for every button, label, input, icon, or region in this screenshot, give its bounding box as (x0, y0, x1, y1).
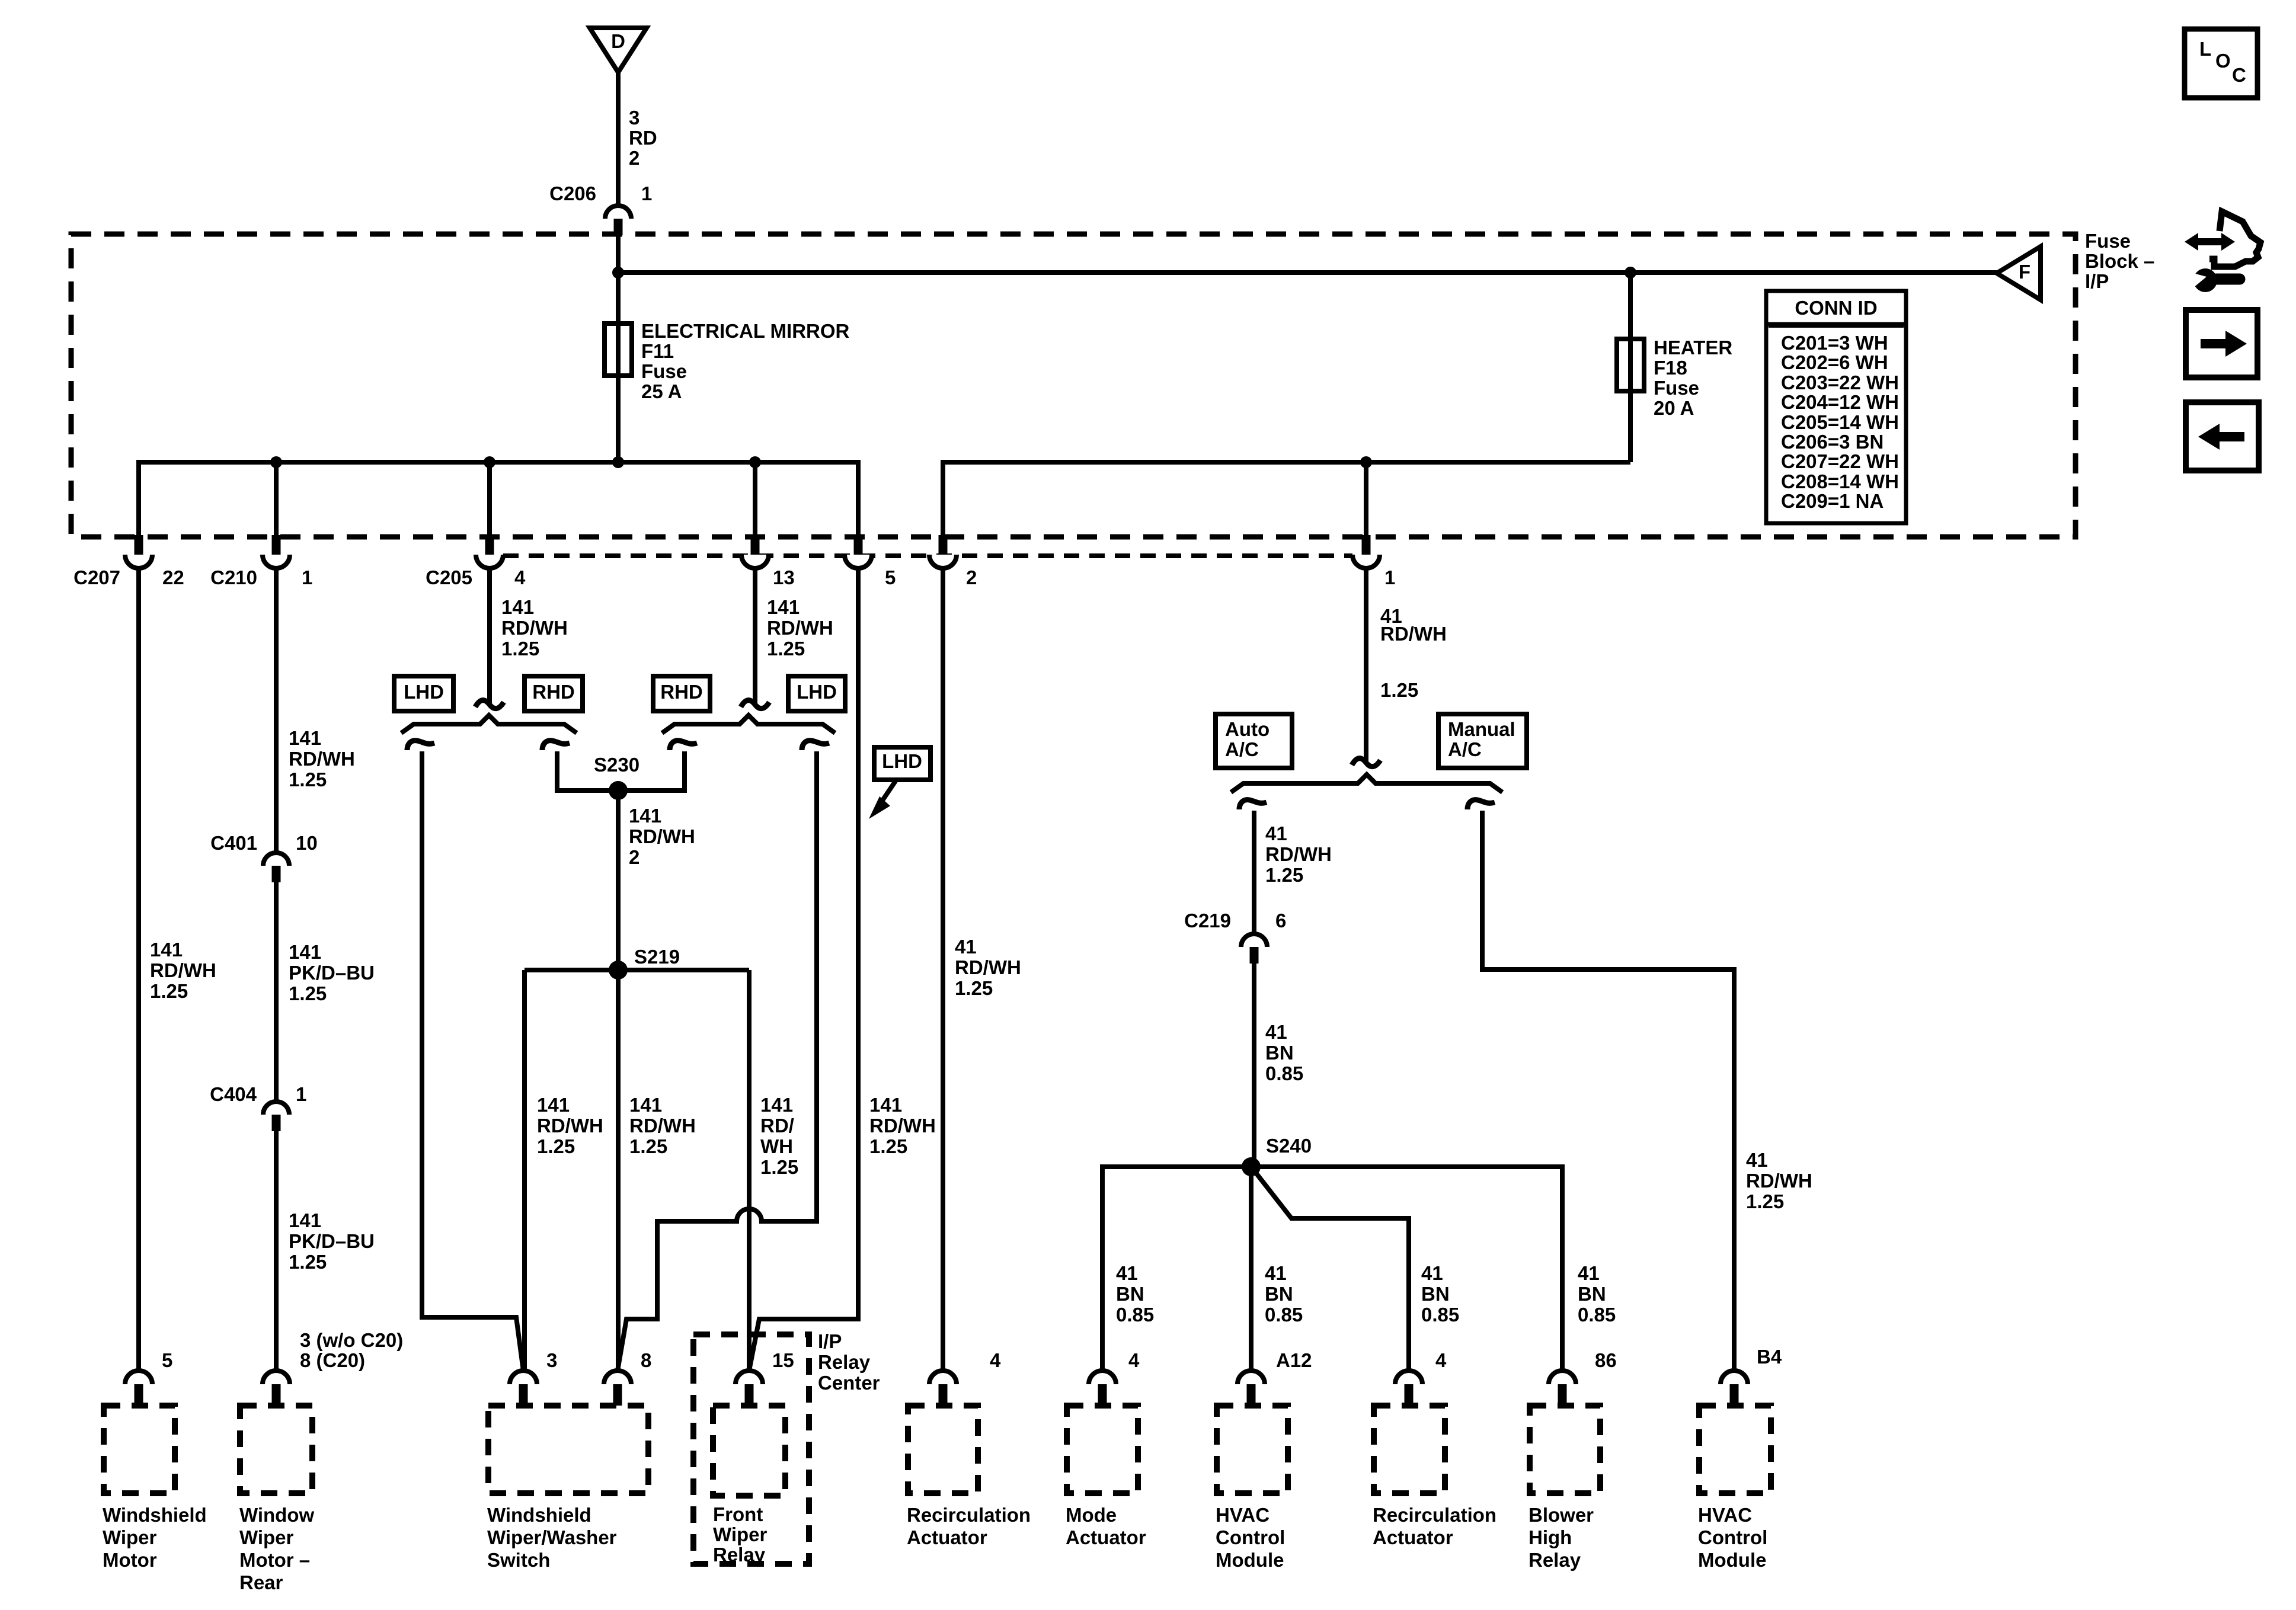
label HEATER F18 Fuse 20 A (1654, 337, 1732, 419)
svg-text:C219: C219 (1184, 910, 1231, 932)
svg-text:13: 13 (773, 566, 795, 588)
svg-text:8 (C20): 8 (C20) (300, 1349, 365, 1371)
hook Auto AC branch (1239, 800, 1267, 809)
label Front Wiper Relay (713, 1503, 768, 1566)
svg-text:4: 4 (990, 1349, 1001, 1371)
svg-text:RD/WH: RD/WH (629, 825, 695, 847)
svg-text:Manual: Manual (1448, 718, 1515, 740)
svg-text:141: 141 (767, 596, 800, 618)
hook LHD branch (407, 741, 434, 750)
wire S240 to HVAC control module A12 (1249, 1167, 1253, 1371)
splice S219 (609, 961, 628, 980)
wire label 141 RD/WH 1.25 (C207) (150, 939, 216, 1002)
svg-text:HEATER: HEATER (1654, 337, 1732, 359)
fuse F18 (1617, 339, 1644, 391)
connector front wiper relay pin15 (736, 1371, 763, 1384)
svg-text:2: 2 (629, 147, 639, 169)
svg-text:1.25: 1.25 (501, 638, 539, 660)
bus wire from F11 (left segment) (139, 462, 858, 537)
wire S219 centre to pin8 (616, 970, 621, 1371)
svg-text:25 A: 25 A (641, 380, 682, 402)
svg-text:Relay: Relay (1528, 1549, 1581, 1571)
svg-text:PK/D–BU: PK/D–BU (289, 962, 375, 984)
svg-text:1.25: 1.25 (869, 1135, 907, 1157)
svg-text:RD/WH: RD/WH (1265, 843, 1332, 865)
svg-text:C210: C210 (210, 566, 257, 588)
svg-text:141: 141 (501, 596, 534, 618)
wire C219 to S240 (1252, 964, 1256, 1167)
svg-text:BN: BN (1265, 1283, 1293, 1305)
svg-text:RD/WH: RD/WH (869, 1115, 936, 1137)
svg-text:S219: S219 (634, 946, 680, 968)
svg-text:0.85: 0.85 (1421, 1304, 1459, 1326)
wire label 141 RD/WH 1.25 (pin8 wire) (629, 1094, 696, 1157)
svg-text:Actuator: Actuator (1066, 1526, 1146, 1548)
HVAC control module 2 box (1699, 1406, 1771, 1493)
svg-text:Recirculation: Recirculation (1373, 1504, 1496, 1526)
svg-text:1: 1 (641, 183, 652, 204)
option tag LHD with arrow (869, 747, 930, 819)
wire C205 pin13 down to split (753, 567, 757, 703)
wire label 141 RD/WH 2 (629, 805, 695, 868)
svg-text:Fuse: Fuse (641, 360, 687, 382)
svg-text:Auto: Auto (1225, 718, 1269, 740)
svg-text:Wiper/Washer: Wiper/Washer (487, 1526, 617, 1548)
connector C205 pin1 (1352, 555, 1380, 568)
svg-text:1.25: 1.25 (760, 1156, 798, 1178)
svg-text:141: 141 (629, 805, 661, 827)
svg-text:Front: Front (713, 1503, 763, 1525)
node C205 pin4 drop (487, 462, 492, 537)
connector C404 label (210, 1083, 306, 1105)
svg-text:1.25: 1.25 (767, 638, 805, 660)
recirculation actuator 2 box (1374, 1406, 1445, 1493)
wire label 41 BN 0.85 (blower) (1578, 1262, 1616, 1326)
svg-text:RD/WH: RD/WH (150, 959, 216, 981)
wire label 141 PK/D-BU 1.25 (lower) (289, 1209, 375, 1273)
svg-text:D: D (611, 30, 625, 52)
svg-text:6: 6 (1275, 910, 1286, 932)
wire auto AC branch to C219 (1252, 811, 1256, 934)
wire S240 to blower high relay (1251, 1167, 1562, 1371)
svg-text:141: 141 (289, 1209, 321, 1231)
label Recirculation Actuator 1 (907, 1504, 1031, 1548)
svg-text:41: 41 (1265, 1262, 1287, 1284)
wire label 41 RD/WH 1.25 (pin2) (955, 936, 1021, 999)
splice S240 (1242, 1157, 1261, 1176)
connector mode actuator (1089, 1371, 1116, 1384)
svg-text:0.85: 0.85 (1265, 1062, 1303, 1084)
pin label 3 (w/o C20) 8 (C20) (300, 1329, 403, 1371)
svg-text:1.25: 1.25 (1746, 1190, 1784, 1212)
option split brace (pin4) (401, 715, 577, 733)
svg-text:Window: Window (239, 1504, 314, 1526)
svg-text:3 (w/o C20): 3 (w/o C20) (300, 1329, 403, 1351)
svg-text:F18: F18 (1654, 357, 1687, 379)
wire manual AC branch to HVAC B4 (1482, 811, 1734, 1371)
connector C210 pin1 (263, 555, 290, 568)
svg-text:LHD: LHD (797, 681, 837, 703)
front wiper relay box (713, 1406, 785, 1496)
wire label 41 BN 0.85 (A12) (1265, 1262, 1303, 1326)
svg-text:S240: S240 (1266, 1135, 1312, 1157)
wire S219 horizontal (525, 968, 749, 972)
hook RHD branch to S230 (670, 741, 697, 750)
svg-text:1.25: 1.25 (955, 977, 993, 999)
svg-text:15: 15 (772, 1349, 794, 1371)
label Windshield Wiper Motor (103, 1504, 207, 1571)
connector blower high relay (1549, 1371, 1576, 1384)
wire label 141 RD/WH 1.25 (pin5) (869, 1094, 936, 1157)
connector C206 label (549, 183, 652, 204)
wire S240 to mode actuator (1102, 1167, 1251, 1371)
node pin1 AC drop (1364, 462, 1368, 537)
svg-text:1.25: 1.25 (1265, 864, 1303, 886)
svg-text:Windshield: Windshield (103, 1504, 207, 1526)
svg-text:141: 141 (760, 1094, 793, 1116)
connector C404 (263, 1102, 289, 1115)
LOC locator box (2185, 29, 2257, 98)
svg-text:Actuator: Actuator (1373, 1526, 1453, 1548)
connector wiper/washer switch pin3 (510, 1371, 537, 1384)
connector HVAC control module 1 (1237, 1371, 1265, 1384)
svg-text:CONN ID: CONN ID (1795, 297, 1877, 319)
bus wire from F18 (right segment) (943, 462, 1630, 537)
wire C206 to F triangle (618, 235, 1997, 273)
svg-text:C207: C207 (73, 566, 120, 588)
HVAC control module 1 box (1217, 1406, 1288, 1493)
svg-text:141: 141 (150, 939, 183, 961)
windshield wiper motor box (104, 1406, 175, 1493)
svg-text:141: 141 (289, 727, 321, 749)
blower high relay box (1530, 1406, 1600, 1493)
connector C219 (1241, 934, 1267, 947)
svg-text:41: 41 (1265, 1021, 1287, 1043)
svg-text:1.25: 1.25 (289, 982, 327, 1004)
svg-text:Center: Center (818, 1372, 880, 1394)
svg-text:Module: Module (1698, 1549, 1766, 1571)
I/P relay center outer dashed box (693, 1334, 809, 1564)
node junction at F18 feed (1625, 267, 1636, 279)
svg-text:20 A: 20 A (1654, 397, 1694, 419)
label HVAC Control Module 2 (1698, 1504, 1767, 1571)
option box Auto A/C (1216, 714, 1292, 768)
svg-text:LHD: LHD (404, 681, 444, 703)
svg-text:BN: BN (1116, 1283, 1144, 1305)
svg-text:B4: B4 (1757, 1346, 1782, 1368)
connector recirculation actuator 1 (929, 1371, 957, 1384)
svg-text:LHD: LHD (882, 750, 922, 772)
wire pin2 to recirculation actuator (941, 567, 945, 1371)
svg-text:Control: Control (1216, 1526, 1285, 1548)
svg-text:RD/WH: RD/WH (629, 1115, 696, 1137)
svg-text:I/P: I/P (818, 1330, 842, 1352)
svg-text:Recirculation: Recirculation (907, 1504, 1031, 1526)
svg-text:HVAC: HVAC (1698, 1504, 1752, 1526)
svg-text:Motor: Motor (103, 1549, 157, 1571)
svg-text:1.25: 1.25 (289, 1251, 327, 1273)
svg-text:PK/D–BU: PK/D–BU (289, 1230, 375, 1252)
wire C205 pin4 down to split (487, 567, 492, 703)
triangle F (1997, 247, 2041, 300)
svg-text:BN: BN (1265, 1042, 1294, 1064)
option split brace (A/C) (1231, 774, 1502, 792)
svg-text:0.85: 0.85 (1578, 1304, 1616, 1326)
option box LHD (right) (788, 676, 845, 711)
connector HVAC control module 2 (1721, 1371, 1748, 1384)
svg-text:Motor –: Motor – (239, 1549, 310, 1571)
fuse F11 wire (616, 273, 621, 462)
svg-text:I/P: I/P (2085, 270, 2109, 292)
svg-text:C205=14 WH: C205=14 WH (1781, 411, 1899, 433)
recirculation actuator 1 box (908, 1406, 978, 1493)
svg-text:C: C (2232, 64, 2246, 86)
wire label 141 RD/WH 1.25 (pin4) (501, 596, 568, 660)
connector windshield wiper motor (125, 1371, 152, 1384)
svg-text:Wiper: Wiper (239, 1526, 294, 1548)
svg-text:1.25: 1.25 (1380, 679, 1418, 701)
svg-text:22: 22 (162, 566, 184, 588)
svg-text:1: 1 (302, 566, 312, 588)
svg-text:High: High (1528, 1526, 1572, 1548)
svg-text:RD/WH: RD/WH (289, 748, 355, 770)
wire RHD branch into S230 (618, 751, 685, 790)
fuse block I/P dashed box (71, 234, 2076, 537)
node pin13 drop (753, 462, 757, 537)
svg-text:C201=3 WH: C201=3 WH (1781, 332, 1888, 354)
label Windshield Wiper/Washer Switch (487, 1504, 617, 1571)
wire C401 to C404 (274, 882, 279, 1102)
svg-text:141: 141 (869, 1094, 902, 1116)
svg-text:RD/: RD/ (760, 1115, 794, 1137)
svg-text:C209=1 NA: C209=1 NA (1781, 490, 1884, 512)
svg-text:41: 41 (1265, 822, 1287, 844)
svg-text:C404: C404 (210, 1083, 257, 1105)
label Blower High Relay (1528, 1504, 1594, 1571)
hook RHD branch to S230 (542, 741, 570, 750)
wire from triangle D to C206 (616, 72, 621, 205)
wire label 41 BN 0.85 (recirc2) (1421, 1262, 1459, 1326)
svg-text:2: 2 (629, 846, 639, 868)
connector C205 pin5 (845, 555, 872, 568)
connector recirculation actuator 2 (1395, 1371, 1422, 1384)
svg-text:RD/WH: RD/WH (1380, 623, 1447, 645)
svg-text:A12: A12 (1276, 1349, 1312, 1371)
svg-text:F: F (2019, 261, 2030, 283)
svg-text:HVAC: HVAC (1216, 1504, 1269, 1526)
svg-text:Relay: Relay (713, 1544, 766, 1566)
svg-text:C205: C205 (426, 566, 472, 588)
connector C401 label (210, 832, 318, 854)
fuse F18 wire (1628, 273, 1633, 462)
svg-text:Blower: Blower (1528, 1504, 1594, 1526)
connector C205 pin2 (929, 555, 957, 568)
svg-text:C206=3 BN: C206=3 BN (1781, 431, 1884, 453)
wire label 141 RD/WH 1.25 (pin13) (767, 596, 833, 660)
svg-text:Rear: Rear (239, 1571, 283, 1593)
svg-text:C202=6 WH: C202=6 WH (1781, 351, 1888, 373)
svg-text:RHD: RHD (532, 681, 575, 703)
svg-text:141: 141 (629, 1094, 662, 1116)
service/repair car icon (2185, 212, 2260, 292)
wire label 141 PK/D-BU 1.25 (upper) (289, 941, 375, 1004)
connector C206 (605, 206, 631, 235)
svg-text:Relay: Relay (818, 1351, 871, 1373)
svg-text:A/C: A/C (1225, 738, 1259, 760)
wire label 41 BN 0.85 (mode) (1116, 1262, 1154, 1326)
wire S219 left to pin3 (522, 970, 527, 1371)
option box LHD (left) (394, 676, 453, 711)
wire S230 to S219 (616, 790, 621, 970)
window wiper motor rear box (240, 1406, 312, 1493)
svg-text:3: 3 (629, 107, 639, 129)
svg-text:1: 1 (1384, 566, 1395, 588)
svg-text:10: 10 (296, 832, 318, 854)
svg-text:Block –: Block – (2085, 250, 2154, 272)
wire RHD branch to S230 (557, 751, 618, 790)
svg-text:1.25: 1.25 (537, 1135, 575, 1157)
svg-text:141: 141 (537, 1094, 570, 1116)
wire pin1 down to AC split (1364, 567, 1368, 761)
wire C210 pin1 down (274, 567, 279, 853)
label Recirculation Actuator 2 (1373, 1504, 1496, 1548)
connector C205 pin4 (476, 555, 503, 568)
svg-text:RD/WH: RD/WH (767, 617, 833, 639)
wire C404 down (274, 1131, 279, 1371)
svg-text:86: 86 (1595, 1349, 1617, 1371)
connector wiper/washer switch pin8 (604, 1371, 631, 1384)
svg-text:41: 41 (955, 936, 977, 958)
svg-text:Mode: Mode (1066, 1504, 1117, 1526)
svg-text:0.85: 0.85 (1265, 1304, 1303, 1326)
svg-text:BN: BN (1421, 1283, 1450, 1305)
label ELECTRICAL MIRROR F11 Fuse 25 A (641, 320, 850, 402)
wire LHD branch down to pin8 with hop (618, 751, 817, 1371)
connector C207 pin22 (125, 555, 152, 568)
svg-text:41: 41 (1578, 1262, 1600, 1284)
svg-text:4: 4 (1435, 1349, 1447, 1371)
back arrow box (2186, 402, 2259, 470)
wire S219 right to pin15 (747, 970, 752, 1371)
svg-text:1.25: 1.25 (150, 980, 188, 1002)
svg-text:Switch: Switch (487, 1549, 550, 1571)
svg-text:C206: C206 (549, 183, 596, 204)
forward arrow box (2186, 310, 2257, 377)
label HVAC Control Module 1 (1216, 1504, 1285, 1571)
svg-text:WH: WH (760, 1135, 793, 1157)
svg-text:Module: Module (1216, 1549, 1284, 1571)
svg-text:Actuator: Actuator (907, 1526, 987, 1548)
power triangle D (590, 28, 647, 72)
svg-text:C204=12 WH: C204=12 WH (1781, 391, 1899, 413)
svg-text:0.85: 0.85 (1116, 1304, 1154, 1326)
svg-text:C203=22 WH: C203=22 WH (1781, 372, 1899, 393)
wire pin5 down to pin15 (749, 567, 858, 1371)
windshield wiper/washer switch box (488, 1406, 648, 1493)
wire label 141 RD/WH 1.25 (C210) (289, 727, 355, 790)
wire label 41 RD/WH 1.25 (manual) (1746, 1149, 1812, 1212)
svg-text:1.25: 1.25 (629, 1135, 667, 1157)
wire C207 pin22 down (136, 567, 141, 1371)
label Fuse Block I/P (2085, 230, 2154, 292)
wire label 41 RD/WH 1.25 (auto) (1265, 822, 1332, 886)
svg-text:1.25: 1.25 (289, 769, 327, 790)
option split brace (pin13) (662, 715, 835, 733)
pin labels fuse block row (73, 566, 1395, 588)
svg-text:5: 5 (162, 1349, 172, 1371)
option box RHD (left pair) (525, 676, 583, 711)
label I/P Relay Center (818, 1330, 880, 1394)
option split squiggle (pin4) (475, 700, 504, 709)
connector C205 body dotted line (503, 553, 1352, 558)
svg-text:O: O (2215, 50, 2231, 72)
option split squiggle (pin1) (1352, 758, 1380, 767)
option box RHD (right pair) (653, 676, 710, 711)
svg-text:L: L (2199, 38, 2211, 60)
svg-text:Windshield: Windshield (487, 1504, 591, 1526)
connector C401 (263, 853, 289, 866)
label Mode Actuator (1066, 1504, 1146, 1548)
svg-text:5: 5 (885, 566, 896, 588)
svg-text:3: 3 (546, 1349, 557, 1371)
svg-text:F11: F11 (641, 340, 674, 362)
hook Manual AC branch (1467, 800, 1495, 809)
svg-text:141: 141 (289, 941, 321, 963)
wire LHD branch down to pin3 (422, 751, 523, 1371)
node F11 bus junction (612, 456, 624, 468)
svg-text:RD/WH: RD/WH (1746, 1170, 1812, 1192)
svg-text:RHD: RHD (660, 681, 703, 703)
wire label 41 RD/WH (pin1) (1380, 605, 1447, 645)
svg-text:1: 1 (296, 1083, 306, 1105)
node C210 drop (274, 462, 279, 537)
wire S240 to recirculation actuator 2 (1251, 1167, 1409, 1371)
node junction at C206 feed (612, 267, 624, 279)
svg-text:RD/WH: RD/WH (501, 617, 568, 639)
svg-text:RD: RD (629, 127, 657, 149)
svg-text:Wiper: Wiper (713, 1523, 768, 1545)
svg-text:Wiper: Wiper (103, 1526, 157, 1548)
svg-text:C207=22 WH: C207=22 WH (1781, 450, 1899, 472)
svg-text:RD/WH: RD/WH (537, 1115, 603, 1137)
wire label 3 RD 2 (629, 107, 657, 169)
svg-text:C208=14 WH: C208=14 WH (1781, 470, 1899, 492)
label Window Wiper Motor Rear (239, 1504, 314, 1593)
wire label 41 BN 0.85 (C219) (1265, 1021, 1303, 1084)
svg-text:C401: C401 (210, 832, 257, 854)
svg-text:S230: S230 (594, 754, 639, 776)
connector window wiper motor rear (263, 1371, 290, 1384)
wire label 141 RD/WH 1.25 (pin15 wire) (760, 1094, 798, 1178)
connector C219 label (1184, 910, 1286, 932)
option split squiggle (pin13) (741, 700, 769, 709)
svg-text:8: 8 (641, 1349, 651, 1371)
mode actuator box (1067, 1406, 1138, 1493)
svg-text:BN: BN (1578, 1283, 1606, 1305)
CONN ID table (1766, 291, 1906, 523)
svg-text:Fuse: Fuse (2085, 230, 2131, 252)
connector C205 pin13 (741, 555, 769, 568)
svg-text:41: 41 (1746, 1149, 1768, 1171)
option box Manual A/C (1438, 714, 1527, 768)
svg-text:Control: Control (1698, 1526, 1767, 1548)
svg-text:Fuse: Fuse (1654, 377, 1699, 399)
svg-text:ELECTRICAL MIRROR: ELECTRICAL MIRROR (641, 320, 850, 342)
svg-text:2: 2 (966, 566, 977, 588)
hook LHD branch (pin13) (802, 741, 829, 750)
svg-text:4: 4 (514, 566, 526, 588)
svg-text:A/C: A/C (1448, 738, 1482, 760)
